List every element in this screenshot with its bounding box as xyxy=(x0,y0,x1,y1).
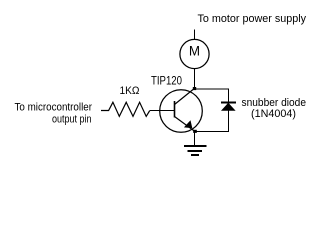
wire motor bottom lead xyxy=(194,69,196,89)
transistor Q1 TIP120 xyxy=(160,89,203,133)
wire diode branch vertical xyxy=(228,89,230,133)
svg-text:TIP120: TIP120 xyxy=(151,74,182,88)
motor M1 xyxy=(180,39,209,68)
svg-text:M: M xyxy=(189,44,200,59)
diode D1 snubber 1N4004 xyxy=(221,102,236,111)
wire emitter to diode bottom xyxy=(194,131,229,133)
label To microcontroller output pin xyxy=(15,102,93,126)
resistor R1 xyxy=(101,102,150,116)
svg-text:To microcontroller: To microcontroller xyxy=(15,102,93,114)
label snubber diode (1N4004) xyxy=(242,97,307,120)
wire motor top lead xyxy=(194,30,196,40)
svg-text:output pin: output pin xyxy=(52,114,92,126)
svg-text:To motor power supply: To motor power supply xyxy=(198,13,307,25)
svg-text:(1N4004): (1N4004) xyxy=(251,108,296,120)
node emitter junction xyxy=(193,130,197,133)
wire base lead into transistor xyxy=(150,110,175,112)
wire collector to diode top xyxy=(194,88,229,90)
wire emitter to ground xyxy=(193,132,195,146)
svg-text:1KΩ: 1KΩ xyxy=(120,85,140,97)
node collector junction xyxy=(193,87,196,90)
ground xyxy=(184,145,207,156)
